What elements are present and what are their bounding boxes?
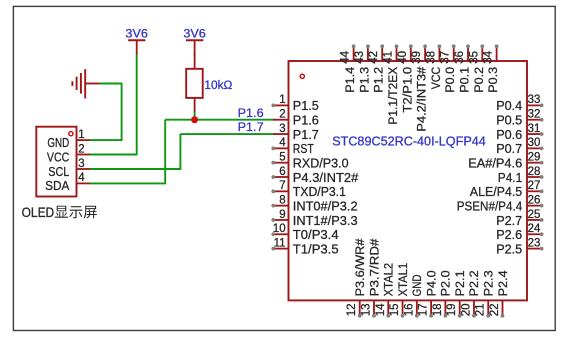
svg-text:3: 3 [279,123,285,135]
svg-text:39: 39 [411,51,423,64]
svg-text:37: 37 [440,51,452,64]
svg-text:T1/P3.5: T1/P3.5 [293,241,339,256]
svg-text:P2.3: P2.3 [482,270,496,296]
svg-text:P2.1: P2.1 [453,270,467,296]
svg-text:3: 3 [78,158,84,170]
svg-text:21: 21 [475,304,487,317]
svg-text:P0.2: P0.2 [472,67,486,93]
svg-text:P4.0: P4.0 [424,270,438,296]
svg-text:10: 10 [273,223,286,235]
svg-text:1: 1 [279,94,285,106]
svg-text:1: 1 [78,129,84,141]
svg-text:23: 23 [528,237,541,249]
svg-text:27: 27 [528,180,541,192]
svg-text:16: 16 [403,304,415,317]
svg-text:34: 34 [483,50,495,63]
svg-text:ALE/P4.5: ALE/P4.5 [470,184,522,199]
svg-text:7: 7 [279,180,285,192]
svg-text:8: 8 [279,194,285,206]
svg-text:RST: RST [293,141,314,156]
svg-text:XTAL1: XTAL1 [396,263,410,297]
svg-text:15: 15 [389,304,401,317]
svg-text:3V6: 3V6 [183,27,206,41]
svg-text:VCC: VCC [429,67,443,89]
svg-text:2: 2 [279,109,285,121]
svg-text:P1.5: P1.5 [293,98,319,113]
svg-text:5: 5 [279,151,285,163]
svg-text:P4.1: P4.1 [498,170,522,185]
svg-text:P1.7: P1.7 [293,127,319,142]
svg-text:EA#/P4.6: EA#/P4.6 [468,155,522,170]
svg-text:40: 40 [397,51,409,64]
svg-text:P2.7: P2.7 [496,213,522,228]
svg-text:INT1#/P3.3: INT1#/P3.3 [293,213,358,228]
svg-text:OLED: OLED [22,205,55,220]
svg-text:35: 35 [468,51,480,64]
svg-text:T2/P1.0: T2/P1.0 [400,67,414,113]
svg-text:T0/P3.4: T0/P3.4 [293,227,339,242]
svg-text:P0.5: P0.5 [496,113,522,128]
svg-text:9: 9 [279,209,285,221]
svg-text:P2.2: P2.2 [467,270,481,296]
svg-text:P0.4: P0.4 [496,98,522,113]
svg-text:44: 44 [340,50,352,63]
svg-text:GND: GND [47,135,69,150]
svg-text:26: 26 [528,194,541,206]
svg-text:33: 33 [528,94,541,106]
svg-text:P1.6: P1.6 [293,113,319,128]
svg-text:P3.7/RD#: P3.7/RD# [367,238,381,296]
svg-text:42: 42 [368,51,380,64]
svg-text:P0.0: P0.0 [443,67,457,93]
svg-text:3V6: 3V6 [125,27,148,41]
svg-text:GND: GND [410,274,424,296]
svg-text:RXD/P3.0: RXD/P3.0 [293,155,349,170]
svg-text:TXD/P3.1: TXD/P3.1 [293,184,346,199]
svg-text:SDA: SDA [45,178,69,193]
svg-text:20: 20 [460,304,472,317]
svg-text:36: 36 [454,51,466,64]
svg-text:13: 13 [360,304,372,317]
svg-text:17: 17 [418,304,430,317]
svg-text:P2.0: P2.0 [439,270,453,296]
svg-text:11: 11 [274,237,286,249]
svg-text:PSEN#/P4.4: PSEN#/P4.4 [457,198,523,213]
svg-text:P2.4: P2.4 [496,270,510,296]
svg-text:P1.3: P1.3 [357,67,371,93]
svg-text:P1.7: P1.7 [238,120,264,134]
svg-text:2: 2 [78,143,84,155]
svg-text:P2.5: P2.5 [496,241,522,256]
svg-text:P2.6: P2.6 [496,227,522,242]
svg-text:19: 19 [446,304,458,317]
svg-text:INT0#/P3.2: INT0#/P3.2 [293,198,358,213]
svg-text:18: 18 [432,304,444,317]
svg-text:12: 12 [346,304,358,317]
svg-text:28: 28 [528,166,541,178]
svg-text:STC89C52RC-40I-LQFP44: STC89C52RC-40I-LQFP44 [332,134,486,149]
svg-text:P0.1: P0.1 [458,67,472,93]
svg-text:38: 38 [425,51,437,64]
svg-text:P0.3: P0.3 [486,67,500,93]
svg-text:P0.6: P0.6 [496,127,522,142]
svg-text:22: 22 [489,304,501,317]
svg-text:25: 25 [528,209,541,221]
svg-text:VCC: VCC [47,149,69,164]
svg-text:6: 6 [279,166,285,178]
svg-text:24: 24 [528,223,541,235]
svg-text:43: 43 [354,51,366,64]
svg-text:P4.3/INT2#: P4.3/INT2# [293,170,359,185]
svg-text:P1.6: P1.6 [238,106,264,120]
svg-text:P4.2/INT3#: P4.2/INT3# [415,67,429,132]
svg-text:P1.1/T2EX: P1.1/T2EX [386,67,400,125]
svg-text:32: 32 [528,109,541,121]
svg-text:P1.4: P1.4 [343,67,357,93]
svg-text:P1.2: P1.2 [372,67,386,93]
svg-text:29: 29 [528,151,541,163]
svg-text:31: 31 [528,123,541,135]
svg-text:41: 41 [383,51,395,64]
svg-text:XTAL2: XTAL2 [382,263,396,297]
svg-text:P3.6/WR#: P3.6/WR# [353,238,367,296]
svg-text:30: 30 [528,137,541,149]
svg-text:4: 4 [78,172,85,184]
svg-text:SCL: SCL [48,164,69,179]
svg-text:P0.7: P0.7 [496,141,522,156]
svg-text:4: 4 [279,137,286,149]
svg-text:14: 14 [375,303,387,316]
svg-text:10kΩ: 10kΩ [204,78,232,92]
